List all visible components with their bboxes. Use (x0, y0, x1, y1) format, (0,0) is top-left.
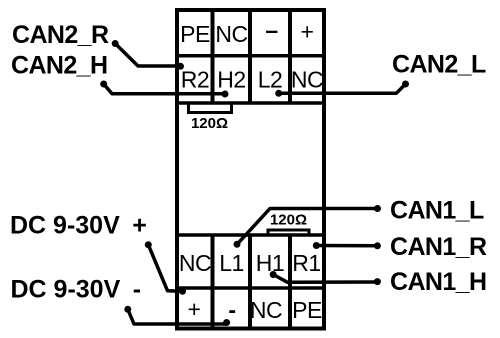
svg-text:R2: R2 (181, 67, 209, 93)
svg-text:NC: NC (291, 67, 323, 93)
svg-text:CAN2_H: CAN2_H (11, 52, 107, 80)
svg-text:H2: H2 (217, 67, 245, 93)
svg-text:CAN1_L: CAN1_L (390, 197, 484, 225)
svg-text:L2: L2 (258, 67, 283, 93)
svg-text:PE: PE (180, 21, 210, 47)
svg-text:–: – (265, 17, 278, 43)
svg-text:-: - (228, 297, 235, 323)
svg-text:DC 9-30V -: DC 9-30V - (11, 276, 142, 304)
svg-text:NC: NC (179, 250, 211, 276)
svg-text:PE: PE (292, 297, 322, 323)
svg-text:H1: H1 (256, 250, 284, 276)
svg-text:L1: L1 (219, 250, 244, 276)
svg-text:120Ω: 120Ω (191, 115, 228, 132)
svg-text:CAN1_R: CAN1_R (390, 233, 487, 261)
svg-text:CAN2_R: CAN2_R (12, 21, 109, 49)
svg-text:+: + (188, 296, 201, 322)
svg-text:R1: R1 (292, 250, 320, 276)
svg-text:DC 9-30V +: DC 9-30V + (10, 211, 147, 239)
svg-text:+: + (301, 19, 314, 45)
svg-text:NC: NC (215, 21, 247, 47)
svg-text:NC: NC (250, 297, 282, 323)
svg-text:120Ω: 120Ω (270, 212, 307, 229)
svg-text:CAN2_L: CAN2_L (392, 51, 486, 79)
svg-text:CAN1_H: CAN1_H (390, 268, 486, 296)
